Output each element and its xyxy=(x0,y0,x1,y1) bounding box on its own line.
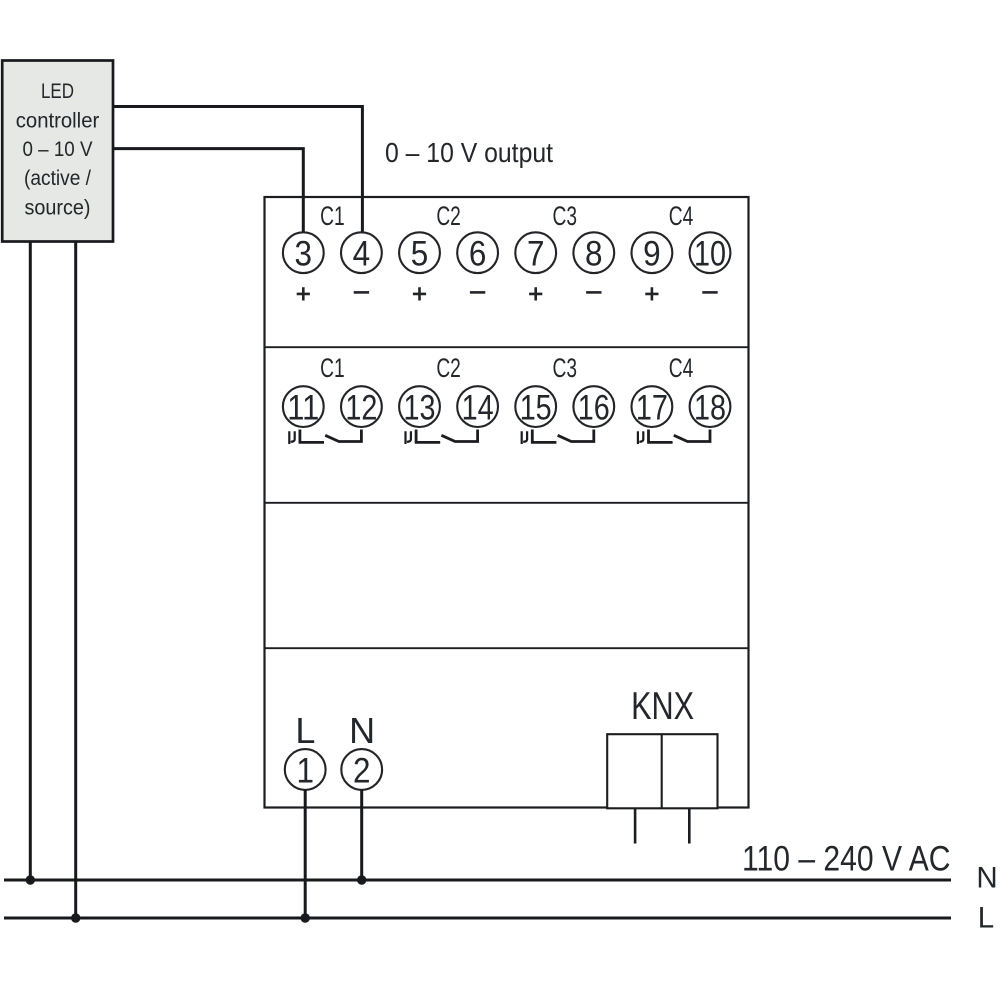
terminal 4 xyxy=(341,232,382,273)
terminal 16 xyxy=(573,386,614,427)
svg-text:L: L xyxy=(978,902,994,935)
svg-text:LED: LED xyxy=(41,80,74,103)
wire: terminal 2 to N line xyxy=(360,790,363,880)
svg-text:C1: C1 xyxy=(320,201,345,231)
polarity + under terminal 5 xyxy=(413,287,426,300)
polarity + under terminal 3 xyxy=(297,287,310,300)
junction: left wire on L line xyxy=(71,913,80,922)
svg-text:(active /: (active / xyxy=(24,167,91,190)
relay contact C3 (terminals 15-16) xyxy=(522,430,594,445)
polarity - under terminal 6 xyxy=(470,291,485,294)
KNX bus pin 1 xyxy=(634,808,637,843)
svg-text:C3: C3 xyxy=(553,201,578,231)
svg-text:18: 18 xyxy=(694,389,726,428)
svg-text:15: 15 xyxy=(520,389,552,428)
terminal 3 xyxy=(283,232,324,273)
terminal 2 xyxy=(341,749,382,790)
polarity + under terminal 9 xyxy=(645,287,658,300)
polarity - under terminal 10 xyxy=(702,291,717,294)
terminal 10 xyxy=(690,232,731,273)
svg-text:C4: C4 xyxy=(669,201,694,231)
svg-text:N: N xyxy=(349,710,375,751)
svg-text:4: 4 xyxy=(353,235,371,274)
svg-text:9: 9 xyxy=(643,235,661,274)
wire: LED controller to terminal 4 xyxy=(113,107,362,233)
terminal 9 xyxy=(632,232,673,273)
svg-text:C4: C4 xyxy=(669,353,694,383)
svg-text:C2: C2 xyxy=(436,201,461,231)
junction: terminal 1 wire on L line xyxy=(301,913,310,922)
svg-text:5: 5 xyxy=(411,235,429,274)
polarity + under terminal 7 xyxy=(529,287,542,300)
svg-text:0 – 10 V output: 0 – 10 V output xyxy=(385,137,553,168)
svg-text:14: 14 xyxy=(462,389,494,428)
svg-text:controller: controller xyxy=(16,110,100,133)
relay contact C2 (terminals 13-14) xyxy=(406,430,478,445)
divider 2 xyxy=(265,502,749,504)
svg-text:10: 10 xyxy=(694,235,726,274)
svg-text:7: 7 xyxy=(527,235,545,274)
svg-text:12: 12 xyxy=(345,389,377,428)
terminal 1 xyxy=(285,749,326,790)
wire: LED controller down-left to N line xyxy=(29,242,32,881)
relay contact C1 (terminals 11-12) xyxy=(289,430,361,445)
svg-text:KNX: KNX xyxy=(631,685,694,728)
terminal 7 xyxy=(515,232,556,273)
svg-text:C1: C1 xyxy=(320,353,345,383)
svg-text:2: 2 xyxy=(353,751,371,790)
device outline (KNX actuator) xyxy=(265,197,749,808)
wire: LED controller down-right to L line xyxy=(74,242,77,919)
svg-text:13: 13 xyxy=(404,389,436,428)
terminal 6 xyxy=(457,232,498,273)
svg-text:source): source) xyxy=(25,197,91,220)
svg-text:110 – 240 V AC: 110 – 240 V AC xyxy=(742,839,951,879)
N supply line xyxy=(4,879,951,882)
terminal 17 xyxy=(632,386,673,427)
LED controller box (external device) xyxy=(2,61,113,242)
junction: left wire on N line xyxy=(26,875,35,884)
terminal 18 xyxy=(690,386,731,427)
wire: LED controller to terminal 3 xyxy=(113,149,303,233)
svg-text:8: 8 xyxy=(585,235,603,274)
KNX bus pin 2 xyxy=(688,808,691,843)
junction: terminal 2 wire on N line xyxy=(357,875,366,884)
terminal 5 xyxy=(399,232,440,273)
svg-text:3: 3 xyxy=(295,235,313,274)
terminal 14 xyxy=(457,386,498,427)
L supply line xyxy=(4,917,951,920)
svg-text:16: 16 xyxy=(578,389,610,428)
svg-text:0 – 10 V: 0 – 10 V xyxy=(23,138,93,161)
terminal 8 xyxy=(573,232,614,273)
relay contact C4 (terminals 17-18) xyxy=(638,430,710,445)
wire: terminal 1 to L line xyxy=(304,790,307,918)
svg-text:C2: C2 xyxy=(436,353,461,383)
terminal 12 xyxy=(341,386,382,427)
KNX bus connector block xyxy=(607,734,717,808)
svg-text:L: L xyxy=(295,710,315,751)
terminal 11 xyxy=(283,386,324,427)
divider 1 xyxy=(265,346,749,348)
polarity - under terminal 4 xyxy=(354,291,369,294)
svg-text:N: N xyxy=(976,861,997,894)
polarity - under terminal 8 xyxy=(586,291,601,294)
svg-text:C3: C3 xyxy=(553,353,578,383)
divider 3 xyxy=(265,647,749,649)
terminal 13 xyxy=(399,386,440,427)
terminal 15 xyxy=(515,386,556,427)
svg-text:1: 1 xyxy=(296,751,314,790)
svg-text:6: 6 xyxy=(469,235,487,274)
svg-text:11: 11 xyxy=(287,389,319,428)
svg-text:17: 17 xyxy=(636,389,668,428)
